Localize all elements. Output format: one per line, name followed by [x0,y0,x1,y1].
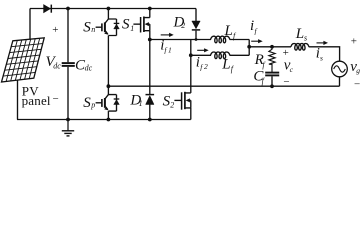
label if2 arrow [197,49,205,51]
wire : bottom branch after Lf [230,54,250,56]
svg-text:S: S [83,95,91,111]
diode blocking (top-left, unlabeled) [44,5,52,13]
svg-text:f: f [231,65,235,74]
wire : PV bottom drop to bottom rail [17,80,19,120]
svg-text:p: p [90,100,95,109]
capacitor Cdc [62,9,75,120]
label is arrow [317,42,325,44]
wire : Sn emitter to Sp collector (left leg midpoint) [107,36,109,95]
inductor Lf (bottom) [211,52,230,59]
svg-text:s: s [320,53,323,62]
node top rail / S1 leg [148,7,152,11]
svg-text:f: f [255,27,258,36]
wire : left drop from top rail to PV panel [29,9,31,40]
label if arrow [251,40,259,42]
transistor S2 (MOSFET) [174,92,190,110]
resistor Rf [269,47,275,72]
wire : output to grid [249,46,291,48]
wire : Sp emitter to bottom rail [107,111,109,119]
label if1 arrow [161,34,171,36]
node D2 / top branch [195,38,198,41]
node top rail / Cdc [66,7,70,11]
wire : S1 source down to node A [149,31,151,40]
diode D2 from top rail [192,9,200,40]
svg-text:2: 2 [181,21,185,30]
wire : node A down to D1 (crosses return rail) [149,40,151,95]
svg-text:S: S [122,17,130,33]
wire : S1 drain lead from top rail [149,9,151,18]
diode D1 [146,95,155,120]
svg-text:−: − [53,93,59,105]
node return rail / Cf [270,84,274,88]
svg-text:n: n [91,25,95,34]
svg-text:L: L [295,26,304,42]
inductor Lf (top) [211,36,230,43]
svg-text:−: − [354,78,360,90]
node bottom rail / Sp [107,118,111,122]
svg-text:1: 1 [168,46,172,55]
AC source vg [332,61,348,86]
node Rf/Cf tap [270,45,274,49]
svg-text:s: s [304,33,307,42]
node bottom rail / D1 [148,118,152,122]
node top rail / Sn leg [107,7,111,11]
svg-text:L: L [221,56,230,72]
node A : S1 source / D1 / top filter branch [148,38,152,42]
transistor Sn (IGBT with antiparallel diode) [96,19,120,36]
transistor Sp (IGBT with antiparallel diode) [96,95,120,112]
wire : S2 drain vertical (top branch to MOSFET, crosses return rail) [190,40,192,93]
svg-text:dc: dc [85,64,93,73]
node return rail / left leg [107,84,111,88]
svg-text:+: + [351,35,357,47]
wire : return rail from left-leg midpoint to grid [108,85,339,87]
svg-text:2: 2 [170,100,174,109]
svg-text:2: 2 [204,62,208,71]
wire : bottom filter branch [191,54,211,56]
svg-text:f: f [200,62,203,71]
svg-text:1: 1 [130,24,134,33]
wire : top branch after Lf [230,39,250,41]
wire : Sn collector lead from top rail [107,9,109,20]
node B : bottom filter branch tap [189,53,193,57]
svg-text:dc: dc [53,61,61,70]
svg-text:f: f [262,77,266,86]
node bottom rail / ground [66,118,70,122]
wire : Ls to grid corner [309,47,340,61]
svg-text:+: + [52,24,58,36]
wire : S2 source to bottom rail [190,108,192,120]
wire : branch join vertical [248,40,250,56]
wire : bottom DC rail [17,119,191,121]
svg-text:g: g [356,66,360,75]
PV panel [2,38,45,82]
svg-text:S: S [83,19,91,35]
inductor Ls [291,44,309,51]
svg-text:1: 1 [139,99,143,108]
transistor S1 (MOSFET) [133,17,149,33]
svg-text:c: c [290,65,294,74]
svg-text:f: f [164,46,167,55]
wire : top filter branch (node A to junction) [150,39,211,41]
ground [62,120,74,136]
node output junction [247,45,251,49]
svg-text:−: − [283,76,289,88]
wire : top DC rail [30,8,196,10]
svg-text:panel: panel [22,93,51,108]
capacitor Cf [265,73,279,87]
svg-text:L: L [224,23,233,39]
